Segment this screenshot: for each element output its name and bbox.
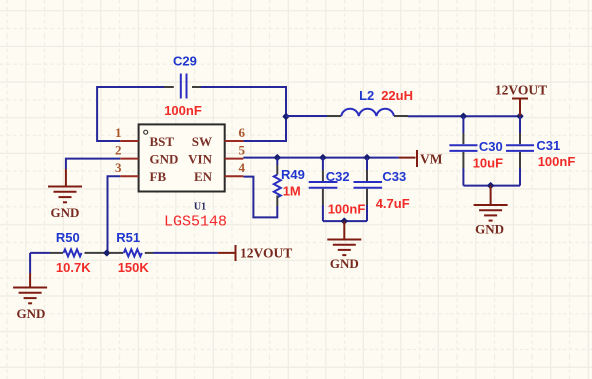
junction C30 top [461,113,467,119]
wire R51 to 12VOUT [153,252,218,254]
junction SW node [283,114,289,120]
svg-text:10.7K: 10.7K [56,260,91,275]
power port 12VOUT top [495,82,547,116]
wire C29 right loop [195,87,286,141]
svg-text:GND: GND [330,256,359,271]
svg-text:100nF: 100nF [328,201,366,216]
resistor R51 [109,230,153,275]
inductor L2 [327,88,413,116]
wire SW to L2 [286,115,328,117]
capacitor C29 [164,53,202,118]
resistor R50 [50,230,104,275]
svg-text:BST: BST [150,134,175,149]
capacitor C32 [309,158,366,222]
svg-text:C31: C31 [536,138,560,153]
junction R49 top [274,155,280,161]
svg-text:100nF: 100nF [538,154,576,169]
svg-text:FB: FB [150,169,167,184]
svg-text:L2: L2 [359,88,374,103]
capacitor C33 [354,158,410,222]
pin 3 [120,175,138,177]
IC U1 body [139,124,227,230]
wire GND pin 2 [66,159,120,169]
wire C29 left loop [97,87,172,141]
svg-text:R50: R50 [56,230,80,245]
ground C30 C31 [474,186,508,237]
svg-text:2: 2 [115,142,122,157]
svg-text:LGS5148: LGS5148 [164,214,227,231]
pin 1 [120,140,138,142]
wire L2 to 12VOUT node [408,115,520,117]
junction C30 C31 gnd [488,183,494,189]
wire C30 C31 bottom rail [463,185,520,187]
svg-text:GND: GND [475,222,504,237]
pin 4 [225,175,244,177]
svg-text:R49: R49 [281,167,305,182]
wire divider rail left [30,252,50,254]
ground R50 [13,273,47,321]
svg-text:100nF: 100nF [164,103,202,118]
svg-text:SW: SW [192,134,212,149]
power port 12VOUT mid [218,245,292,261]
svg-text:C33: C33 [382,169,406,184]
svg-text:VM: VM [420,152,443,167]
svg-text:GND: GND [51,205,80,220]
wire VIN net [243,157,399,159]
svg-text:3: 3 [115,160,122,175]
wire C32 C33 bottom rail [323,220,367,222]
wire FB pin 3 to divider [108,176,121,253]
svg-text:U1: U1 [194,202,206,213]
svg-text:150K: 150K [118,260,150,275]
wire R49 bottom to EN [243,177,277,218]
junction C33 top [364,155,370,161]
svg-text:10uF: 10uF [473,156,503,171]
svg-text:C29: C29 [173,53,197,68]
svg-text:VIN: VIN [188,152,212,167]
junction divider [104,250,110,256]
wire R50 to gnd [29,253,31,273]
power port VM [399,150,443,167]
junction C32 C33 gnd [341,218,347,224]
junction C32 top [320,155,326,161]
svg-text:4: 4 [239,160,246,175]
svg-text:GND: GND [17,306,46,321]
svg-text:GND: GND [150,152,179,167]
svg-text:12VOUT: 12VOUT [495,82,547,97]
svg-text:12VOUT: 12VOUT [240,246,292,261]
svg-text:22uH: 22uH [381,88,413,103]
svg-text:5: 5 [239,142,246,157]
pin 5 [225,158,244,160]
svg-text:EN: EN [194,169,213,184]
pin 6 [225,140,244,142]
svg-text:C30: C30 [479,139,503,154]
svg-text:1: 1 [115,125,122,140]
svg-text:6: 6 [239,125,246,140]
resistor R49 [274,158,305,206]
junction C31 top [517,113,523,119]
capacitor C30 [449,116,503,185]
svg-text:C32: C32 [326,169,350,184]
ground C32 C33 [327,221,361,271]
pin 2 [120,158,138,160]
svg-text:R51: R51 [116,230,140,245]
svg-text:1M: 1M [283,184,301,199]
svg-text:4.7uF: 4.7uF [376,196,410,211]
capacitor C31 [506,116,575,185]
ground pin2 [48,169,82,220]
